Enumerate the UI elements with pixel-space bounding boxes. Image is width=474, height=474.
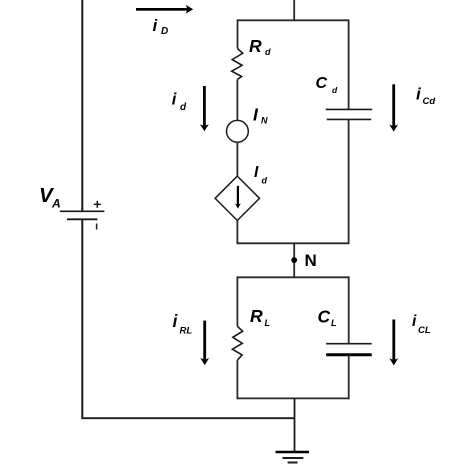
- minus mark of VA: [96, 224, 98, 230]
- wire: top wire of load box: [237, 276, 348, 278]
- dependent source Id diamond: [215, 176, 259, 220]
- label Rd: [249, 36, 271, 57]
- label iCd: [416, 85, 435, 107]
- label id: [172, 91, 187, 114]
- svg-text:L: L: [265, 318, 271, 328]
- svg-text:d: d: [332, 85, 338, 95]
- wire: left branch of load box below RL: [236, 360, 238, 399]
- svg-text:N: N: [305, 251, 317, 270]
- capacitor Cd bottom plate: [327, 118, 372, 120]
- wire: between Rd and IN source: [236, 80, 238, 121]
- label iRL: [173, 311, 193, 336]
- svg-text:d: d: [262, 176, 268, 186]
- wire: ground stem: [294, 398, 296, 452]
- wire: right branch of load box below CL: [348, 355, 350, 400]
- label Cd: [316, 75, 339, 95]
- svg-text:Cd: Cd: [423, 96, 436, 107]
- current arrow iCd: [389, 84, 398, 131]
- node N dot: [291, 257, 297, 263]
- voltage source VA battery top plate: [60, 210, 105, 212]
- svg-text:I: I: [253, 104, 259, 124]
- ground bar 3: [288, 462, 298, 464]
- svg-text:C: C: [316, 75, 328, 92]
- wire: right branch of load box above CL: [348, 276, 350, 343]
- svg-text:N: N: [261, 116, 268, 126]
- svg-text:i: i: [416, 85, 422, 104]
- label Id: [254, 164, 268, 186]
- label VA: [39, 184, 61, 211]
- current arrow iD: [136, 5, 193, 14]
- wire: right branch of top box below Cd: [348, 119, 350, 244]
- capacitor Cd top plate: [326, 108, 373, 110]
- current arrow id: [200, 86, 209, 131]
- label CL: [318, 307, 337, 329]
- wire: below Id diamond to bottom of top box: [236, 221, 238, 245]
- label IN: [253, 104, 268, 125]
- label RL: [250, 306, 270, 328]
- svg-text:A: A: [51, 197, 61, 211]
- current arrow iRL: [200, 321, 209, 366]
- svg-text:CL: CL: [418, 325, 431, 336]
- voltage source VA battery bottom plate: [67, 218, 97, 220]
- svg-text:d: d: [265, 47, 271, 57]
- plus sign of VA: [94, 201, 101, 208]
- wire: bottom wire of top box: [237, 242, 348, 244]
- resistor Rd zigzag: [232, 49, 243, 80]
- wire: between IN and Id source: [236, 142, 238, 176]
- wire: stub from top box to node N: [293, 243, 295, 277]
- wire: top wire of diode branch: [238, 19, 349, 21]
- svg-text:R: R: [250, 306, 263, 326]
- wire: right branch of top box above Cd: [348, 19, 350, 109]
- svg-text:I: I: [254, 164, 259, 181]
- capacitor CL bottom plate (thick): [326, 353, 372, 356]
- wire: left branch of top box above Rd: [237, 19, 239, 48]
- wire: left branch vertical from battery to bottom: [81, 219, 83, 417]
- wire: top stub to supply: [293, 0, 295, 20]
- svg-text:i: i: [172, 91, 177, 109]
- svg-text:RL: RL: [180, 325, 193, 336]
- svg-text:i: i: [153, 16, 159, 35]
- wire: bottom horizontal from VA branch to ground node: [81, 417, 294, 419]
- svg-text:d: d: [180, 102, 187, 113]
- wire: left branch of load box above RL: [236, 276, 238, 326]
- wire: left branch vertical from top to battery: [81, 0, 83, 211]
- resistor RL zigzag: [232, 326, 242, 360]
- svg-text:R: R: [249, 36, 262, 56]
- label iD: [153, 16, 169, 37]
- capacitor CL top plate: [326, 343, 372, 345]
- ground bar 1: [276, 451, 310, 454]
- svg-text:i: i: [173, 311, 179, 331]
- current source IN circle: [227, 120, 249, 142]
- arrow inside Id diamond: [235, 186, 241, 209]
- svg-text:D: D: [161, 26, 168, 37]
- label iCL: [412, 313, 431, 336]
- svg-text:C: C: [318, 307, 331, 327]
- svg-text:L: L: [331, 318, 337, 328]
- current arrow iCL: [389, 320, 398, 366]
- ground bar 2: [283, 457, 304, 459]
- wire: bottom wire of load box: [237, 397, 348, 399]
- svg-text:i: i: [412, 313, 417, 330]
